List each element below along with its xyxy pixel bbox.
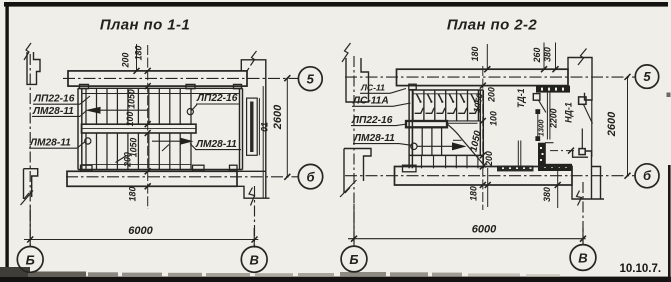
axis circle Б (17, 247, 43, 273)
svg-text:1300: 1300 (536, 119, 545, 137)
dim 380 bottom (557, 164, 559, 208)
svg-text:180: 180 (470, 47, 480, 62)
svg-text:5: 5 (643, 69, 651, 84)
axis Б grid line (left, vertical dash-dot) (29, 54, 31, 247)
svg-text:200: 200 (121, 53, 131, 69)
svg-text:2600: 2600 (606, 111, 618, 137)
axis circle 6 (635, 164, 659, 188)
section/dimension vertical line (482, 66, 484, 210)
page bottom border (0, 277, 671, 282)
right wall window/door element (247, 98, 258, 155)
svg-text:ЛС-11: ЛС-11 (360, 83, 385, 93)
svg-text:180: 180 (469, 186, 479, 201)
axis circle 5 (298, 67, 322, 91)
break diagonal left wall bottom (340, 180, 357, 197)
stair cage outline (409, 90, 483, 168)
ТД-1 leader square (533, 94, 540, 101)
axis extension solid segments (353, 204, 355, 246)
axis 6 grid line (horizontal dash-dot) (345, 175, 635, 177)
right page edge line (668, 165, 671, 282)
column stub bottom-left (403, 165, 417, 172)
bottom scan smudges (0, 267, 30, 277)
tambour partition double line (517, 141, 519, 166)
svg-text:План по 2-2: План по 2-2 (447, 17, 538, 34)
НД-1 leader square (579, 97, 586, 104)
axis extension solid segments (29, 206, 31, 247)
upper flight tread lines (86, 88, 191, 124)
bottom wall band (395, 167, 573, 186)
partition double line (546, 93, 548, 140)
left wall fragment bottom (24, 169, 38, 199)
axis В grid line (vertical dash-dot) (582, 182, 584, 245)
svg-text:2600: 2600 (272, 104, 284, 130)
svg-text:ТД-1: ТД-1 (516, 88, 526, 108)
hatched vertical wall bar (538, 143, 546, 164)
section/dimension line vertical (147, 45, 149, 209)
top-right wall pier with break (241, 60, 265, 198)
svg-text:6000: 6000 (472, 224, 497, 236)
column stubs on top band (80, 84, 242, 88)
page left border (5, 2, 8, 281)
left wall fragment bottom (344, 149, 371, 194)
svg-text:ЛМ28-11: ЛМ28-11 (353, 133, 395, 144)
column stub top-left (409, 84, 416, 89)
page top border (4, 2, 668, 7)
top-right wall pier with break (568, 58, 592, 101)
dim line 2600 (627, 77, 629, 176)
axis circle В (570, 245, 596, 271)
break diagonal left wall bottom (21, 191, 34, 206)
break zigzag bottom-right pier (577, 191, 582, 206)
svg-text:2200: 2200 (548, 108, 558, 129)
dim line 2600 (286, 78, 288, 177)
svg-text:200: 200 (487, 87, 497, 103)
svg-text:В: В (578, 250, 587, 265)
left wall fragment top (346, 58, 369, 102)
right wall outer edge double line (258, 98, 260, 155)
axis 5 grid line (horizontal dash-dot) (63, 77, 299, 79)
step line (545, 142, 554, 144)
doorway center dash line (550, 150, 574, 152)
break zigzag on top-right pier (247, 51, 257, 71)
column stubs on bottom band (81, 165, 238, 171)
svg-text:ЛП22-16: ЛП22-16 (33, 94, 75, 105)
svg-text:10.10.7.: 10.10.7. (620, 263, 662, 275)
svg-text:200: 200 (123, 152, 133, 168)
svg-text:01: 01 (260, 122, 270, 132)
svg-text:ЛП22-16: ЛП22-16 (351, 115, 393, 126)
leader marker circle upper right (187, 109, 193, 115)
lower flight tread lines (413, 127, 442, 155)
svg-text:180: 180 (134, 46, 144, 61)
svg-text:380: 380 (542, 187, 552, 202)
svg-text:НД-1: НД-1 (563, 102, 573, 123)
upper landing slab edge (82, 93, 240, 95)
svg-text:б: б (643, 168, 652, 183)
svg-text:ЛС-11А: ЛС-11А (352, 96, 389, 107)
break zigzag bottom-right pier (249, 188, 255, 206)
svg-text:100: 100 (125, 112, 135, 127)
bottom-right wall pier (237, 171, 270, 198)
lower marker line and square (581, 129, 583, 149)
svg-text:1050: 1050 (127, 89, 137, 109)
axis 5 grid line (horizontal dash-dot) (345, 76, 635, 78)
svg-text:100: 100 (489, 111, 499, 126)
down-flight direction arrow (points right) (152, 140, 183, 142)
dimension 6000 bottom (24, 239, 258, 241)
top wall band (68, 71, 247, 86)
svg-text:200: 200 (484, 151, 494, 167)
aux dim line bottom 180 (487, 168, 489, 207)
svg-text:6000: 6000 (128, 225, 153, 237)
break zigzag left wall top (342, 43, 351, 62)
svg-text:План по 1-1: План по 1-1 (100, 17, 190, 34)
hatched horizontal wall bar (538, 164, 572, 171)
bottom-right wall pier (573, 151, 601, 199)
break zigzag left wall top (24, 43, 31, 60)
top dim lines 260/380 (543, 43, 545, 70)
left wall fragment top (27, 52, 40, 84)
axis circle б (298, 164, 322, 188)
svg-text:380: 380 (543, 47, 553, 62)
svg-text:В: В (250, 252, 259, 267)
svg-text:ЛП22-16: ЛП22-16 (196, 93, 238, 104)
svg-text:Б: Б (26, 252, 35, 267)
rail thin continuation (447, 120, 481, 122)
dimension 6000 bottom (348, 238, 586, 240)
axis circle В (241, 247, 267, 273)
middle rail band (82, 124, 197, 133)
svg-text:Б: Б (349, 252, 358, 267)
svg-text:ЛМ28-11: ЛМ28-11 (195, 139, 237, 150)
flight cut S-diagonal (447, 124, 486, 168)
break zigzag top-right pier (578, 49, 587, 66)
svg-text:180: 180 (128, 187, 138, 202)
ТД-1 black sill bar (536, 86, 570, 93)
axis Б grid line (vertical dash-dot) (353, 56, 355, 247)
svg-text:ЛМ28-11: ЛМ28-11 (29, 138, 71, 149)
upper flight tread lines with cut hatch (413, 90, 478, 121)
leader marker circle lower left (85, 138, 91, 144)
under-landing tread lines to band (422, 155, 478, 168)
auxiliary dim line top (136, 44, 138, 71)
axis В grid line (right, vertical dash-dot) (254, 186, 256, 248)
hatched strip on band left of bars (497, 166, 534, 172)
dim ticks (134, 68, 151, 189)
svg-text:б: б (306, 169, 315, 184)
middle rail band (dark) (406, 121, 447, 127)
dim ticks on section line (480, 66, 491, 188)
axis б grid line (horizontal dash-dot) (66, 176, 298, 178)
down-flight arrow with start circle (411, 143, 417, 149)
svg-text:ЛМ28-11: ЛМ28-11 (32, 106, 74, 117)
axis circle 5 (635, 65, 658, 88)
dim 1300 with square ends (537, 112, 539, 140)
axis circle Б (341, 246, 367, 272)
up-flight direction arrow (points left) (99, 109, 148, 111)
svg-text:260: 260 (532, 48, 542, 64)
cut hatch marks lower row (415, 108, 478, 114)
svg-text:5: 5 (307, 71, 315, 86)
stair cage outline (78, 88, 243, 169)
cut hatch marks upper row (416, 94, 476, 103)
upper slab edge (412, 93, 480, 95)
lower flight tread lines (86, 133, 191, 170)
bottom wall band (67, 171, 237, 186)
lower landing slab edge (82, 164, 191, 166)
top wall band (397, 69, 569, 85)
